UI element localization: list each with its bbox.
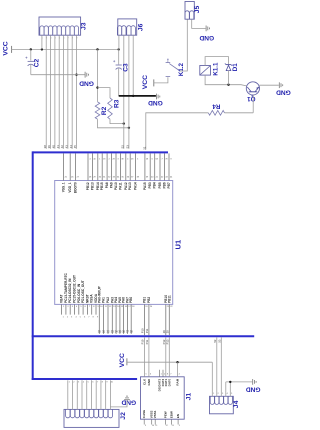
svg-text:P10: P10 (141, 328, 145, 333)
capacitor C2 (25, 49, 34, 74)
ground GND symbol 5 (246, 379, 261, 393)
svg-text:40: 40 (93, 159, 95, 161)
wire J2 pin10 (109, 380, 111, 409)
wire J3 pin5 to bus (58, 35, 60, 149)
wire J4 GND net horizontal (226, 381, 252, 383)
svg-text:PA15: PA15 (143, 182, 147, 190)
svg-text:9: 9 (107, 382, 108, 384)
svg-text:K1.2: K1.2 (178, 63, 185, 77)
svg-text:PA13: PA13 (128, 182, 132, 190)
svg-text:GND: GND (246, 386, 261, 393)
svg-text:Q1: Q1 (247, 95, 256, 102)
svg-text:3: 3 (78, 382, 79, 384)
svg-text:VSS_1: VSS_1 (62, 182, 66, 192)
wire J3 pin9 to bus (GND tap) (76, 35, 78, 149)
svg-text:PB5: PB5 (158, 182, 162, 188)
wire J4 pin4 to GND net (225, 382, 227, 396)
svg-text:J5: J5 (194, 6, 201, 14)
svg-text:2: 2 (109, 159, 110, 161)
svg-text:38: 38 (121, 159, 123, 161)
net label R4 wire (142, 146, 146, 150)
wire J6 pin2 to bus (123, 35, 125, 149)
svg-text:7: 7 (88, 317, 89, 319)
net labels DAT wires below bus (162, 339, 170, 344)
svg-text:P13: P13 (165, 339, 169, 344)
svg-text:53: 53 (126, 145, 130, 149)
diode D1 (225, 63, 232, 84)
svg-text:U1: U1 (174, 239, 183, 249)
connector J2 body (64, 409, 119, 427)
svg-text:PA12: PA12 (124, 182, 128, 190)
svg-text:C3: C3 (123, 63, 130, 72)
svg-text:PB7: PB7 (167, 182, 171, 188)
J2 pin numbers (69, 382, 113, 384)
wire J1 Vdd (177, 362, 179, 377)
svg-text:J6: J6 (138, 23, 145, 31)
svg-text:PB2: PB2 (147, 297, 151, 303)
wire J6 pin3 to bus (128, 35, 130, 149)
svg-text:PA10: PA10 (114, 182, 118, 190)
svg-text:4: 4 (83, 382, 84, 384)
wire J5 pin2 to GND (192, 19, 206, 28)
svg-text:5: 5 (145, 374, 146, 376)
ground GND symbol 6 (148, 94, 163, 107)
bus left vertical (32, 151, 34, 380)
junction J3 pin9 / GND line (75, 74, 77, 76)
svg-text:R3: R3 (113, 99, 120, 108)
svg-text:J3: J3 (80, 22, 87, 30)
svg-text:7: 7 (97, 382, 98, 384)
wire J2 pin9 (105, 380, 107, 409)
svg-text:31: 31 (102, 329, 105, 333)
J1 top pin names (142, 378, 179, 391)
U1 bottom stub end marks (63, 317, 98, 319)
svg-text:VCC: VCC (3, 41, 10, 55)
wire VCC to R2/R3 node (97, 49, 99, 101)
wire J2 pin8 (100, 380, 102, 409)
svg-text:45: 45 (73, 145, 77, 149)
svg-text:P11: P11 (145, 339, 149, 344)
svg-text:2: 2 (218, 393, 219, 395)
transistor Q1 (246, 82, 259, 95)
svg-text:58: 58 (146, 159, 148, 161)
wire J1 GND to bus (148, 337, 150, 377)
wire J1 DAT1 to bus (165, 337, 167, 377)
wire J3 pin1 to VCC (41, 35, 43, 49)
svg-text:9: 9 (145, 425, 146, 427)
svg-text:GND: GND (147, 378, 151, 386)
svg-text:1: 1 (69, 382, 70, 384)
junction J6 pin4 / GND line (132, 95, 134, 97)
capacitor C3 (113, 49, 122, 96)
U1 top net marks (89, 159, 171, 161)
J1 bottom pin numbers (145, 425, 180, 427)
wire J3 pin6 to bus (63, 35, 65, 149)
resistor R3 (108, 98, 113, 119)
wire J2 pin4 (81, 380, 83, 409)
svg-text:PB15: PB15 (100, 182, 104, 190)
U1 bottom pin names (60, 272, 172, 303)
svg-text:GND: GND (276, 89, 291, 96)
relay contact K1.2 (166, 59, 180, 77)
connector J1 body (141, 377, 185, 419)
svg-text:5: 5 (231, 393, 232, 395)
wire Q1 emitter to GND (260, 84, 279, 86)
svg-text:PB12: PB12 (86, 182, 90, 190)
ground GND symbol 2 (199, 26, 214, 41)
svg-text:PB13: PB13 (90, 182, 94, 190)
svg-text:BOOT0: BOOT0 (74, 182, 78, 193)
power VCC symbol 1 (3, 41, 12, 55)
svg-text:30: 30 (165, 330, 169, 333)
resistor R2 (95, 102, 100, 119)
wire J2 pin7 (95, 380, 97, 409)
svg-text:78: 78 (165, 159, 167, 161)
svg-text:13: 13 (172, 425, 174, 427)
svg-text:11: 11 (155, 425, 157, 427)
svg-text:GND: GND (121, 398, 136, 405)
wire C2 to GND (y74.7) (31, 74, 85, 76)
ground GND symbol 3 (276, 82, 291, 95)
wire VCC rail bottom (127, 361, 212, 363)
svg-text:32: 32 (107, 329, 110, 333)
wire J4 pin5 to GND net (229, 382, 231, 396)
svg-text:38: 38 (130, 329, 133, 333)
U1 top pin stubs (64, 153, 169, 180)
svg-text:1: 1 (99, 159, 100, 161)
net labels J3 wires (43, 145, 77, 149)
svg-text:GND: GND (79, 79, 94, 86)
svg-text:P11: P11 (145, 328, 149, 333)
svg-text:12: 12 (166, 425, 168, 427)
J1 bottom pin names (142, 410, 180, 418)
U1 bottom pin stubs (62, 304, 96, 314)
svg-text:10: 10 (111, 382, 113, 384)
J3 pin numbers (42, 38, 78, 40)
svg-text:2: 2 (73, 382, 74, 384)
svg-text:GND: GND (199, 34, 214, 41)
J4 pin numbers (213, 393, 232, 395)
power VCC symbol 3 (119, 353, 127, 367)
svg-text:EBW: EBW (169, 411, 173, 418)
svg-text:48: 48 (131, 159, 133, 161)
ground GND symbol 1 (79, 72, 94, 87)
svg-text:3: 3 (117, 159, 118, 161)
junction VCC/C2 (30, 48, 32, 50)
svg-text:4: 4 (227, 393, 228, 395)
wire J3 pin7 to bus (67, 35, 69, 149)
svg-text:R4: R4 (212, 102, 220, 109)
U1 top pin numbers (65, 177, 174, 179)
wire J1 CLK to bus (143, 337, 145, 377)
svg-text:2: 2 (67, 317, 68, 319)
svg-text:30: 30 (98, 329, 101, 333)
net labels J1 wires below bus (141, 339, 150, 344)
U1 top pin names (62, 182, 171, 193)
svg-text:5: 5 (80, 317, 81, 319)
svg-text:6: 6 (150, 374, 151, 376)
bus bottom horizontal (32, 378, 137, 380)
wire J2 pin2 (72, 380, 74, 409)
wire J1 DAT2 stub (162, 370, 164, 377)
wire J1 DAT3 stub (159, 370, 161, 377)
net labels U1 bottom wires (98, 329, 133, 333)
bus top horizontal (33, 151, 168, 153)
svg-text:VCC: VCC (119, 353, 126, 367)
U1 bottom pin wires to J1 nets (144, 304, 169, 335)
svg-text:PA1: PA1 (102, 297, 106, 303)
wire J2 pin1 (67, 380, 69, 409)
connector J6 (117, 19, 136, 35)
svg-text:3: 3 (71, 317, 72, 319)
wire Q1 base to R4 (252, 95, 254, 113)
svg-text:VDD_1: VDD_1 (68, 182, 72, 193)
svg-text:52: 52 (121, 145, 125, 149)
svg-text:6: 6 (92, 382, 93, 384)
J1 bottom pin stubs (144, 419, 178, 424)
wire J3 pin4 to bus (54, 35, 56, 149)
wire J6 pin4 to GND line (132, 35, 134, 96)
svg-text:PA11: PA11 (118, 182, 122, 190)
svg-text:3: 3 (222, 393, 223, 395)
wire VCC rail (y49.4) (12, 48, 119, 50)
svg-text:PB0: PB0 (129, 297, 133, 303)
svg-text:52: 52 (213, 339, 217, 342)
svg-text:4: 4 (127, 159, 128, 161)
U1 bottom pin wires to bus (99, 304, 131, 334)
svg-text:J4: J4 (233, 400, 240, 408)
wire R3 bottom (110, 119, 124, 123)
svg-text:6: 6 (152, 159, 153, 161)
svg-text:C2: C2 (34, 58, 41, 67)
junction R2/J6 pin3 (128, 127, 130, 129)
wire J3 pin8 to bus (71, 35, 73, 149)
svg-text:8: 8 (167, 374, 168, 376)
U1 bottom pin numbers (63, 306, 173, 308)
junction R3/J6 pin2 (123, 122, 125, 124)
svg-text:18: 18 (103, 159, 105, 161)
svg-text:7: 7 (161, 159, 162, 161)
svg-text:7: 7 (170, 374, 171, 376)
net labels J6 wires (121, 145, 130, 149)
wire J4 pin2 to bus (216, 337, 218, 396)
svg-text:1: 1 (213, 393, 214, 395)
net labels J4 wires (213, 339, 222, 342)
wire K1.2 common to J5 (180, 19, 187, 71)
IC U1 body (55, 181, 173, 305)
svg-text:J2: J2 (120, 412, 127, 420)
svg-text:4: 4 (179, 374, 180, 376)
svg-text:PB6: PB6 (162, 182, 166, 188)
svg-text:10: 10 (152, 425, 154, 427)
bus middle horizontal (32, 335, 255, 337)
power VCC symbol 2 (142, 75, 154, 89)
junction VCC/J6 pin1 (118, 48, 120, 50)
svg-text:PB14: PB14 (96, 182, 100, 190)
svg-text:PA8: PA8 (105, 182, 109, 188)
wire K1.1 bottom (205, 75, 246, 86)
wire R4 right lead (225, 112, 254, 114)
svg-text:8: 8 (93, 317, 94, 319)
svg-text:PB3: PB3 (148, 182, 152, 188)
svg-text:PB4: PB4 (153, 182, 157, 188)
svg-text:PA14: PA14 (134, 182, 138, 190)
resistor R4 (208, 110, 224, 115)
wire GND net (thick black) (119, 95, 156, 97)
svg-text:PB11: PB11 (167, 295, 171, 303)
J1 top pin numbers (145, 374, 179, 376)
svg-text:21: 21 (142, 146, 146, 150)
svg-text:4: 4 (75, 317, 76, 319)
wire GND to J2 pin10 (110, 400, 127, 407)
svg-text:1: 1 (63, 317, 64, 319)
wire J6 pin1 to VCC (118, 35, 120, 49)
junction VCC/R2R3 feed (96, 48, 98, 50)
connector J4 body (210, 396, 234, 414)
svg-text:EN: EN (176, 414, 180, 418)
wire VCC to K1.2 contact (154, 77, 168, 83)
svg-text:2: 2 (164, 374, 165, 376)
svg-text:PA9: PA9 (110, 182, 114, 188)
svg-text:9: 9 (97, 317, 98, 319)
svg-text:P12: P12 (162, 339, 166, 344)
svg-text:J1: J1 (186, 393, 193, 401)
wire J2 pin3 (76, 380, 78, 409)
svg-text:GND: GND (148, 99, 163, 106)
svg-text:D1: D1 (232, 63, 239, 71)
svg-text:DAT0: DAT0 (167, 378, 171, 386)
wire J3 pin3 to bus (50, 35, 52, 149)
wire K1.1 top to D1 (205, 57, 228, 66)
svg-text:53: 53 (217, 339, 221, 342)
svg-text:P10: P10 (141, 339, 145, 344)
wire J3 pin2 to bus (45, 35, 47, 149)
wire J1 DAT0 to bus (168, 337, 170, 377)
svg-text:5: 5 (88, 382, 89, 384)
junction J4 GND (229, 381, 231, 383)
svg-text:8: 8 (170, 159, 171, 161)
svg-text:29: 29 (162, 330, 166, 333)
wire R3 top branch (98, 88, 111, 98)
svg-text:PB1: PB1 (142, 297, 146, 303)
junction VCC/J3 pin1 (41, 48, 43, 50)
ground GND symbol 4 (121, 396, 136, 405)
junction D1/K1.1 bottom (227, 84, 229, 86)
svg-text:RAM: RAM (176, 378, 180, 385)
svg-text:VCC: VCC (142, 75, 149, 89)
wire R4 left lead to bus (146, 113, 209, 150)
svg-text:4: 4 (89, 159, 90, 161)
wire J2 pin5 (86, 380, 88, 409)
wire J4 pin1 from VCC rail (211, 362, 213, 396)
net labels SPI above bus (141, 328, 170, 333)
svg-text:R2: R2 (101, 106, 108, 115)
connector J3 (39, 17, 81, 35)
svg-text:3: 3 (179, 425, 180, 427)
junction VCC/J1 Vdd (176, 361, 178, 363)
relay coil K1.1 (200, 66, 211, 76)
svg-text:28: 28 (113, 159, 115, 161)
wire R2 bottom (98, 119, 129, 128)
svg-text:68: 68 (156, 159, 158, 161)
junction R2/R3 node (96, 86, 98, 88)
connector J5 (185, 2, 194, 20)
svg-text:K1.1: K1.1 (212, 62, 219, 76)
svg-text:VSS1: VSS1 (153, 410, 157, 418)
svg-text:PEW: PEW (163, 411, 167, 418)
svg-text:5: 5 (137, 159, 138, 161)
wire J4 pin3 to bus (220, 337, 222, 396)
svg-text:6: 6 (84, 317, 85, 319)
svg-text:CLK: CLK (142, 378, 146, 385)
svg-text:CASE: CASE (142, 410, 146, 418)
wire J2 pin6 (90, 380, 92, 409)
svg-text:8: 8 (102, 382, 103, 384)
svg-text:1: 1 (161, 374, 162, 376)
